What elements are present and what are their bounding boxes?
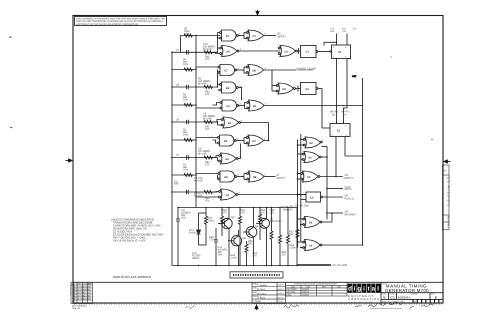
svg-text:6: 6 (265, 33, 267, 36)
svg-text:MYLAR: MYLAR (198, 83, 207, 86)
label POWER CLEAR (297, 67, 316, 70)
svg-text:DEC: DEC (322, 286, 327, 289)
wire E9 out (236, 138, 246, 144)
svg-text:C1: C1 (338, 51, 342, 54)
svg-text:E5: E5 (226, 87, 230, 90)
label MFTD overline (345, 187, 352, 191)
wire trunk v327 (322, 147, 328, 220)
svg-text:8: 8 (239, 192, 241, 195)
resistor R3 (184, 104, 192, 107)
svg-text:REV: REV (78, 283, 83, 286)
svg-text:4: 4 (345, 46, 347, 49)
svg-text:470: 470 (270, 212, 275, 215)
wire MFTD stub (327, 188, 343, 190)
registration arrow right (443, 160, 450, 164)
ANALOG SECTION (172, 207, 331, 267)
wire D7 out (264, 140, 269, 142)
svg-text:THIS SCHEMATIC IS FURNISHED ON: THIS SCHEMATIC IS FURNISHED ONLY FOR TES… (76, 17, 165, 20)
svg-text:GENERATOR M700: GENERATOR M700 (385, 288, 429, 293)
wire C3b out (322, 196, 343, 198)
gate E7 row C (218, 65, 237, 76)
wire E6 inputs (212, 48, 219, 54)
svg-text:CS M700-0-1: CS M700-0-1 (447, 177, 451, 208)
svg-text:MFTD: MFTD (345, 188, 352, 191)
label UP RESTART (345, 210, 357, 216)
svg-text:t: t (368, 286, 370, 293)
wire top stub (324, 42, 337, 45)
wire E7 out (238, 33, 246, 39)
wire E6 out long (239, 50, 280, 52)
gate D2 (276, 83, 295, 94)
svg-text:3: 3 (240, 103, 242, 106)
svg-text:8: 8 (265, 67, 267, 70)
svg-text:C5: C5 (176, 119, 180, 122)
wire ground bus (172, 265, 331, 267)
svg-text:470: 470 (205, 93, 210, 96)
svg-text:D-664: D-664 (189, 232, 196, 235)
revision table bottom left (71, 282, 93, 303)
wire E9 inputs (196, 138, 218, 144)
gate C3 right (298, 171, 320, 182)
capacitor C6 (187, 85, 189, 89)
resistor R47 (199, 208, 208, 246)
wire D1 out to E1 (318, 89, 330, 129)
notice text (76, 17, 165, 25)
svg-text:C7: C7 (176, 49, 180, 52)
conversion chart (286, 282, 348, 296)
wire rung row7 (172, 139, 196, 141)
gate D4 row E (247, 100, 264, 111)
svg-text:DEC3009B: DEC3009B (287, 288, 298, 291)
svg-text:D2: D2 (283, 88, 287, 91)
resistor R66 (279, 208, 282, 266)
svg-text:1,000: 1,000 (231, 257, 238, 260)
analog labels (181, 205, 310, 261)
gate D6 row C (246, 65, 263, 76)
gate E4 right (303, 217, 322, 228)
svg-text:C3: C3 (310, 197, 314, 200)
svg-text:MYLAR: MYLAR (194, 180, 203, 183)
svg-text:3: 3 (265, 103, 267, 106)
svg-text:JW: JW (88, 295, 91, 298)
svg-text:CS: CS (390, 296, 395, 300)
transistor Q3 (228, 236, 242, 246)
transistor Q2 (218, 218, 232, 228)
svg-text:4-28-71: 4-28-71 (278, 284, 286, 287)
wire rung row10 (172, 191, 218, 193)
svg-text:C4: C4 (176, 154, 180, 157)
svg-text:E7: E7 (225, 70, 229, 73)
wire C4 inputs (298, 242, 304, 248)
svg-text:C3: C3 (307, 176, 311, 179)
svg-text:+5V: +5V (352, 28, 357, 31)
capacitor C16 (214, 228, 218, 266)
flipflop C1 (332, 43, 351, 59)
gate E3b row F (221, 117, 240, 128)
svg-text:C2: C2 (285, 51, 289, 54)
svg-text:7,500: 7,500 (208, 220, 215, 223)
wire E2b out (321, 156, 327, 158)
svg-text:PIN 14 ON EACH IC = +5V: PIN 14 ON EACH IC = +5V (113, 240, 146, 243)
svg-text:1: 1 (332, 124, 334, 127)
resistor R52 (204, 121, 212, 124)
wire rung row2 (172, 51, 218, 53)
gate C2 (278, 46, 297, 57)
svg-text:10%: 10% (184, 33, 190, 36)
wire rung row9 (172, 174, 196, 176)
wire E8 out (237, 174, 247, 180)
svg-text:1,500: 1,500 (290, 247, 297, 250)
border frame (73, 16, 443, 304)
wire E3b inputs (212, 120, 221, 126)
output label A7 MFTP0 (277, 174, 286, 180)
wire rung row1 (181, 35, 221, 37)
gate E4a row H (219, 153, 238, 164)
svg-text:DEC3009: DEC3009 (270, 220, 281, 223)
svg-text:1: 1 (333, 46, 335, 49)
wire rung row4 (172, 86, 218, 88)
resistor R5 (184, 34, 192, 37)
svg-text:E4: E4 (226, 158, 230, 161)
resistor R2 (184, 139, 192, 142)
capacitor C7 (181, 50, 188, 55)
svg-text:8: 8 (238, 67, 240, 70)
wire E3 inputs (196, 103, 220, 109)
svg-text:a: a (372, 286, 376, 293)
svg-text:CIRCUITS ARE PROPRIETARY IN NA: CIRCUITS ARE PROPRIETARY IN NATURE AND S… (76, 20, 163, 23)
svg-text:i: i (363, 286, 365, 293)
svg-text:MAYNARD, MASSACHUSETTS: MAYNARD, MASSACHUSETTS (348, 301, 373, 304)
svg-text:i: i (354, 286, 356, 293)
svg-text:5-3-71: 5-3-71 (278, 300, 285, 303)
label UP MFTD2 (345, 174, 355, 180)
svg-text:6: 6 (241, 120, 243, 123)
wire E7 inputs (218, 33, 220, 53)
gate C1 box (301, 46, 318, 58)
svg-text:JW: JW (88, 292, 91, 295)
registration arrow bottom (255, 305, 259, 311)
svg-text:MFTD 2: MFTD 2 (345, 177, 355, 180)
svg-text:RESTART: RESTART (345, 213, 357, 216)
gate designator labels (224, 35, 257, 197)
resistor R1 (184, 174, 192, 177)
svg-text:D2, B4, (R)2: D2, B4, (R)2 (281, 206, 295, 209)
notes block (111, 219, 164, 243)
wire bus right (195, 36, 197, 208)
capacitor C4 (187, 155, 189, 159)
wire restart stub (327, 212, 343, 214)
svg-text:MYLAR: MYLAR (203, 118, 212, 121)
svg-text:470: 470 (205, 128, 210, 131)
svg-text:750: 750 (289, 233, 294, 236)
svg-text:B1: B1 (342, 105, 346, 108)
wire rung row3 (172, 69, 196, 71)
svg-text:2N3009: 2N3009 (302, 288, 310, 291)
svg-text:AC, DC GND: AC, DC GND (333, 264, 348, 267)
gate E2b right (298, 152, 322, 163)
gate E2a right (303, 137, 322, 148)
svg-text:8: 8 (264, 138, 266, 141)
capacitor C5 (187, 120, 189, 124)
svg-text:750: 750 (342, 30, 347, 33)
svg-text:C4: C4 (226, 194, 230, 197)
resistor R50 (204, 86, 212, 89)
svg-text:CORPORATION: CORPORATION (348, 298, 380, 301)
wire gnd stub (297, 264, 331, 266)
gate C4a row J (219, 189, 238, 200)
svg-text:470: 470 (261, 212, 266, 215)
capacitor C11 (176, 208, 180, 266)
svg-text:MYLAR: MYLAR (198, 153, 207, 156)
labels MFTP1 pair (330, 105, 351, 117)
wire q2 collector (228, 208, 230, 266)
svg-text:E3: E3 (228, 122, 232, 125)
scanner specks (9, 37, 433, 232)
svg-text:C7: C7 (253, 35, 257, 38)
wire C4a out (238, 194, 306, 196)
gate C7 row A (246, 30, 263, 41)
svg-text:d: d (348, 286, 352, 293)
svg-text:B2: B2 (332, 114, 336, 117)
wire E2a inputs (298, 134, 305, 248)
svg-text:8: 8 (237, 138, 239, 141)
svg-text:W. Long: W. Long (257, 292, 266, 295)
junction dots right (297, 42, 364, 249)
svg-text:D4: D4 (253, 105, 257, 108)
svg-text:R16: R16 (330, 30, 335, 33)
svg-text:E3: E3 (227, 105, 231, 108)
svg-text:6: 6 (238, 174, 240, 177)
gate E7 row A (220, 30, 239, 41)
number strip right edge (443, 165, 450, 230)
wire D2 to D1 (295, 86, 300, 92)
wire E4 out up (322, 213, 332, 222)
svg-text:10%: 10% (183, 169, 189, 172)
svg-text:11: 11 (239, 156, 242, 159)
svg-text:4-30-71: 4-30-71 (278, 292, 286, 295)
svg-text:TRANSISTOR & DIODE CONVERSION: TRANSISTOR & DIODE CONVERSION CHART (294, 283, 338, 286)
svg-text:MFTP 2: MFTP 2 (278, 36, 287, 39)
flipflop E1 (330, 122, 350, 137)
svg-text:COPYRIGHT 1971 BY DIGITAL EQUI: COPYRIGHT 1971 BY DIGITAL EQUIPMENT CORP… (76, 23, 138, 26)
svg-text:MFTP 0: MFTP 0 (277, 177, 286, 180)
svg-text:1N3606: 1N3606 (302, 293, 310, 296)
gate D8 row I (247, 171, 264, 182)
resistor R54 (204, 156, 212, 159)
svg-text:6: 6 (265, 174, 267, 177)
wire E3 out (239, 103, 247, 109)
gate E8 row I (218, 171, 237, 182)
wire E1 bottom out (336, 137, 363, 177)
svg-text:470: 470 (253, 255, 258, 258)
svg-text:470: 470 (223, 212, 228, 215)
svg-text:470: 470 (205, 164, 210, 167)
svg-text:g: g (357, 286, 361, 293)
svg-text:+5V: +5V (352, 75, 357, 78)
svg-text:2: 2 (333, 56, 335, 59)
signoff table (252, 282, 286, 303)
wire bus left (171, 52, 173, 265)
wire q4 (253, 208, 255, 266)
gate C3b box (298, 192, 323, 202)
transistor Q4 (243, 227, 257, 238)
resistor R56 (204, 191, 212, 194)
svg-text:C1: C1 (306, 51, 310, 54)
resistor R58b (245, 241, 248, 266)
svg-text:R. Gork: R. Gork (257, 288, 266, 291)
svg-text:3: 3 (345, 56, 347, 59)
svg-text:C4: C4 (309, 245, 313, 248)
title block (381, 282, 443, 303)
svg-text:470: 470 (282, 254, 287, 257)
svg-text:470: 470 (205, 200, 210, 203)
wire D2 inputs (272, 70, 277, 91)
wire rung row5 (172, 104, 196, 106)
svg-text:PARTS LIST A-PL-M700-0-0: PARTS LIST A-PL-M700-0-0 (113, 275, 151, 279)
svg-text:A: A (444, 170, 446, 173)
wire E7c out (237, 67, 247, 73)
svg-text:20%: 20% (181, 217, 187, 220)
wire D6 out powerclear (264, 69, 297, 71)
wire C3 out (320, 176, 343, 178)
svg-text:REF: REF (174, 183, 179, 186)
svg-text:E1: E1 (337, 130, 341, 133)
svg-text:470: 470 (241, 212, 246, 215)
svg-text:T. Shaffer: T. Shaffer (257, 284, 267, 287)
wire FFC1 bottom pins (337, 59, 348, 124)
svg-text:750: 750 (248, 243, 253, 246)
svg-text:A2: A2 (344, 114, 348, 117)
svg-text:D1: D1 (306, 88, 310, 91)
junction dots ladder (171, 35, 197, 193)
svg-text:3: 3 (239, 33, 241, 36)
svg-text:10%: 10% (183, 99, 189, 102)
wire E5 inputs (218, 85, 220, 91)
handwritten scribbles below frame (186, 302, 434, 308)
svg-text:DEC: DEC (291, 286, 296, 289)
svg-text:E6: E6 (227, 51, 231, 54)
junction dots analog (177, 207, 298, 267)
label UP RUN (345, 194, 354, 200)
svg-text:10%: 10% (183, 134, 189, 137)
wire E7c inputs (196, 67, 218, 87)
svg-text:2N6534: 2N6534 (302, 291, 310, 294)
capacitor C3 (187, 190, 189, 194)
resistor R62 (259, 208, 262, 241)
wire FFC1 top pins (337, 34, 348, 44)
svg-text:D6: D6 (253, 70, 257, 73)
diode D13 (197, 213, 207, 245)
wire E5 out (238, 88, 241, 101)
resistor R4 (184, 68, 192, 71)
svg-text:DRB 102: DRB 102 (72, 307, 81, 310)
registration arrow left (66, 159, 73, 163)
wire q1 (266, 208, 268, 266)
wire C1 to FF (318, 51, 330, 53)
gate E9 row G (218, 135, 237, 146)
transistor Q1 (256, 218, 270, 228)
svg-text:APP: APP (88, 283, 93, 286)
wire E8 inputs (196, 174, 218, 180)
svg-text:MYLAR: MYLAR (203, 48, 212, 51)
junction dots gates (217, 37, 269, 141)
wire right drop (296, 208, 298, 266)
svg-text:Q2: Q2 (231, 216, 235, 219)
ruler tick strip along bottom edge (74, 303, 443, 305)
resistor R67 (296, 230, 299, 238)
svg-text:4: 4 (345, 124, 347, 127)
svg-text:DEC6534: DEC6534 (287, 291, 297, 294)
svg-text:RUN (1): RUN (1) (345, 197, 354, 200)
svg-text:6: 6 (240, 48, 242, 51)
resistor R46 (204, 51, 212, 54)
svg-text:R68 470: R68 470 (283, 209, 293, 212)
wire E4 inputs (298, 219, 304, 225)
pin number labels (237, 33, 267, 195)
svg-text:Q4: Q4 (255, 225, 259, 228)
svg-text:INPUT: INPUT (192, 257, 200, 260)
svg-text:M700-0-1: M700-0-1 (398, 295, 411, 299)
svg-text:7,500: 7,500 (209, 239, 216, 242)
resistor R65 (270, 208, 273, 266)
resistor R60 (221, 208, 224, 237)
wire E4a inputs (212, 156, 218, 162)
gate E3 row E (220, 100, 239, 111)
svg-text:REVISIONS: REVISIONS (69, 284, 72, 295)
ladder value labels (174, 28, 216, 203)
gate D1 box (301, 83, 318, 95)
svg-text:10%: 10% (218, 254, 224, 257)
wire D4 out long (264, 105, 363, 107)
gate D7 row G (246, 135, 263, 146)
svg-text:E7: E7 (226, 35, 230, 38)
wire C7 out (264, 35, 277, 37)
svg-text:D7: D7 (253, 140, 257, 143)
svg-text:E4: E4 (309, 222, 313, 225)
svg-text:PRINTED CIRCUIT REV.: PRINTED CIRCUIT REV. (382, 300, 406, 303)
gate C4 right (303, 240, 322, 251)
right gate labels (283, 51, 342, 248)
svg-text:A. Ryan: A. Ryan (256, 297, 266, 300)
svg-text:E2: E2 (310, 142, 314, 145)
svg-text:SH 1: SH 1 (446, 223, 449, 229)
wire rung row8 (172, 157, 218, 159)
wire E3b out (240, 123, 268, 141)
svg-text:10%: 10% (183, 63, 189, 66)
resistor R63 (287, 208, 290, 266)
wire rung row6 (172, 121, 218, 123)
gate E6 row B (220, 46, 239, 57)
wire D8 out (264, 176, 276, 178)
bottom band top rule (73, 281, 443, 283)
output label B2 MFTP2 (278, 33, 287, 39)
wire C2 to C1 (297, 48, 300, 54)
wire C4a inputs (196, 192, 219, 198)
registration arrow top (256, 10, 260, 16)
svg-text:Q3: Q3 (243, 237, 247, 240)
labels above FFC1 (330, 28, 357, 34)
svg-text:4-29-71: 4-29-71 (278, 288, 286, 291)
resistor R61 (239, 208, 242, 266)
svg-text:E9: E9 (224, 140, 228, 143)
svg-text:5-3-71: 5-3-71 (278, 296, 285, 299)
connector J1 strip (230, 272, 283, 278)
svg-text:470: 470 (205, 58, 210, 61)
svg-text:NUMBER: NUMBER (410, 293, 418, 296)
svg-text:l: l (377, 286, 379, 293)
wire C4 out (322, 244, 363, 246)
svg-text:L. Bowe: L. Bowe (253, 300, 262, 303)
